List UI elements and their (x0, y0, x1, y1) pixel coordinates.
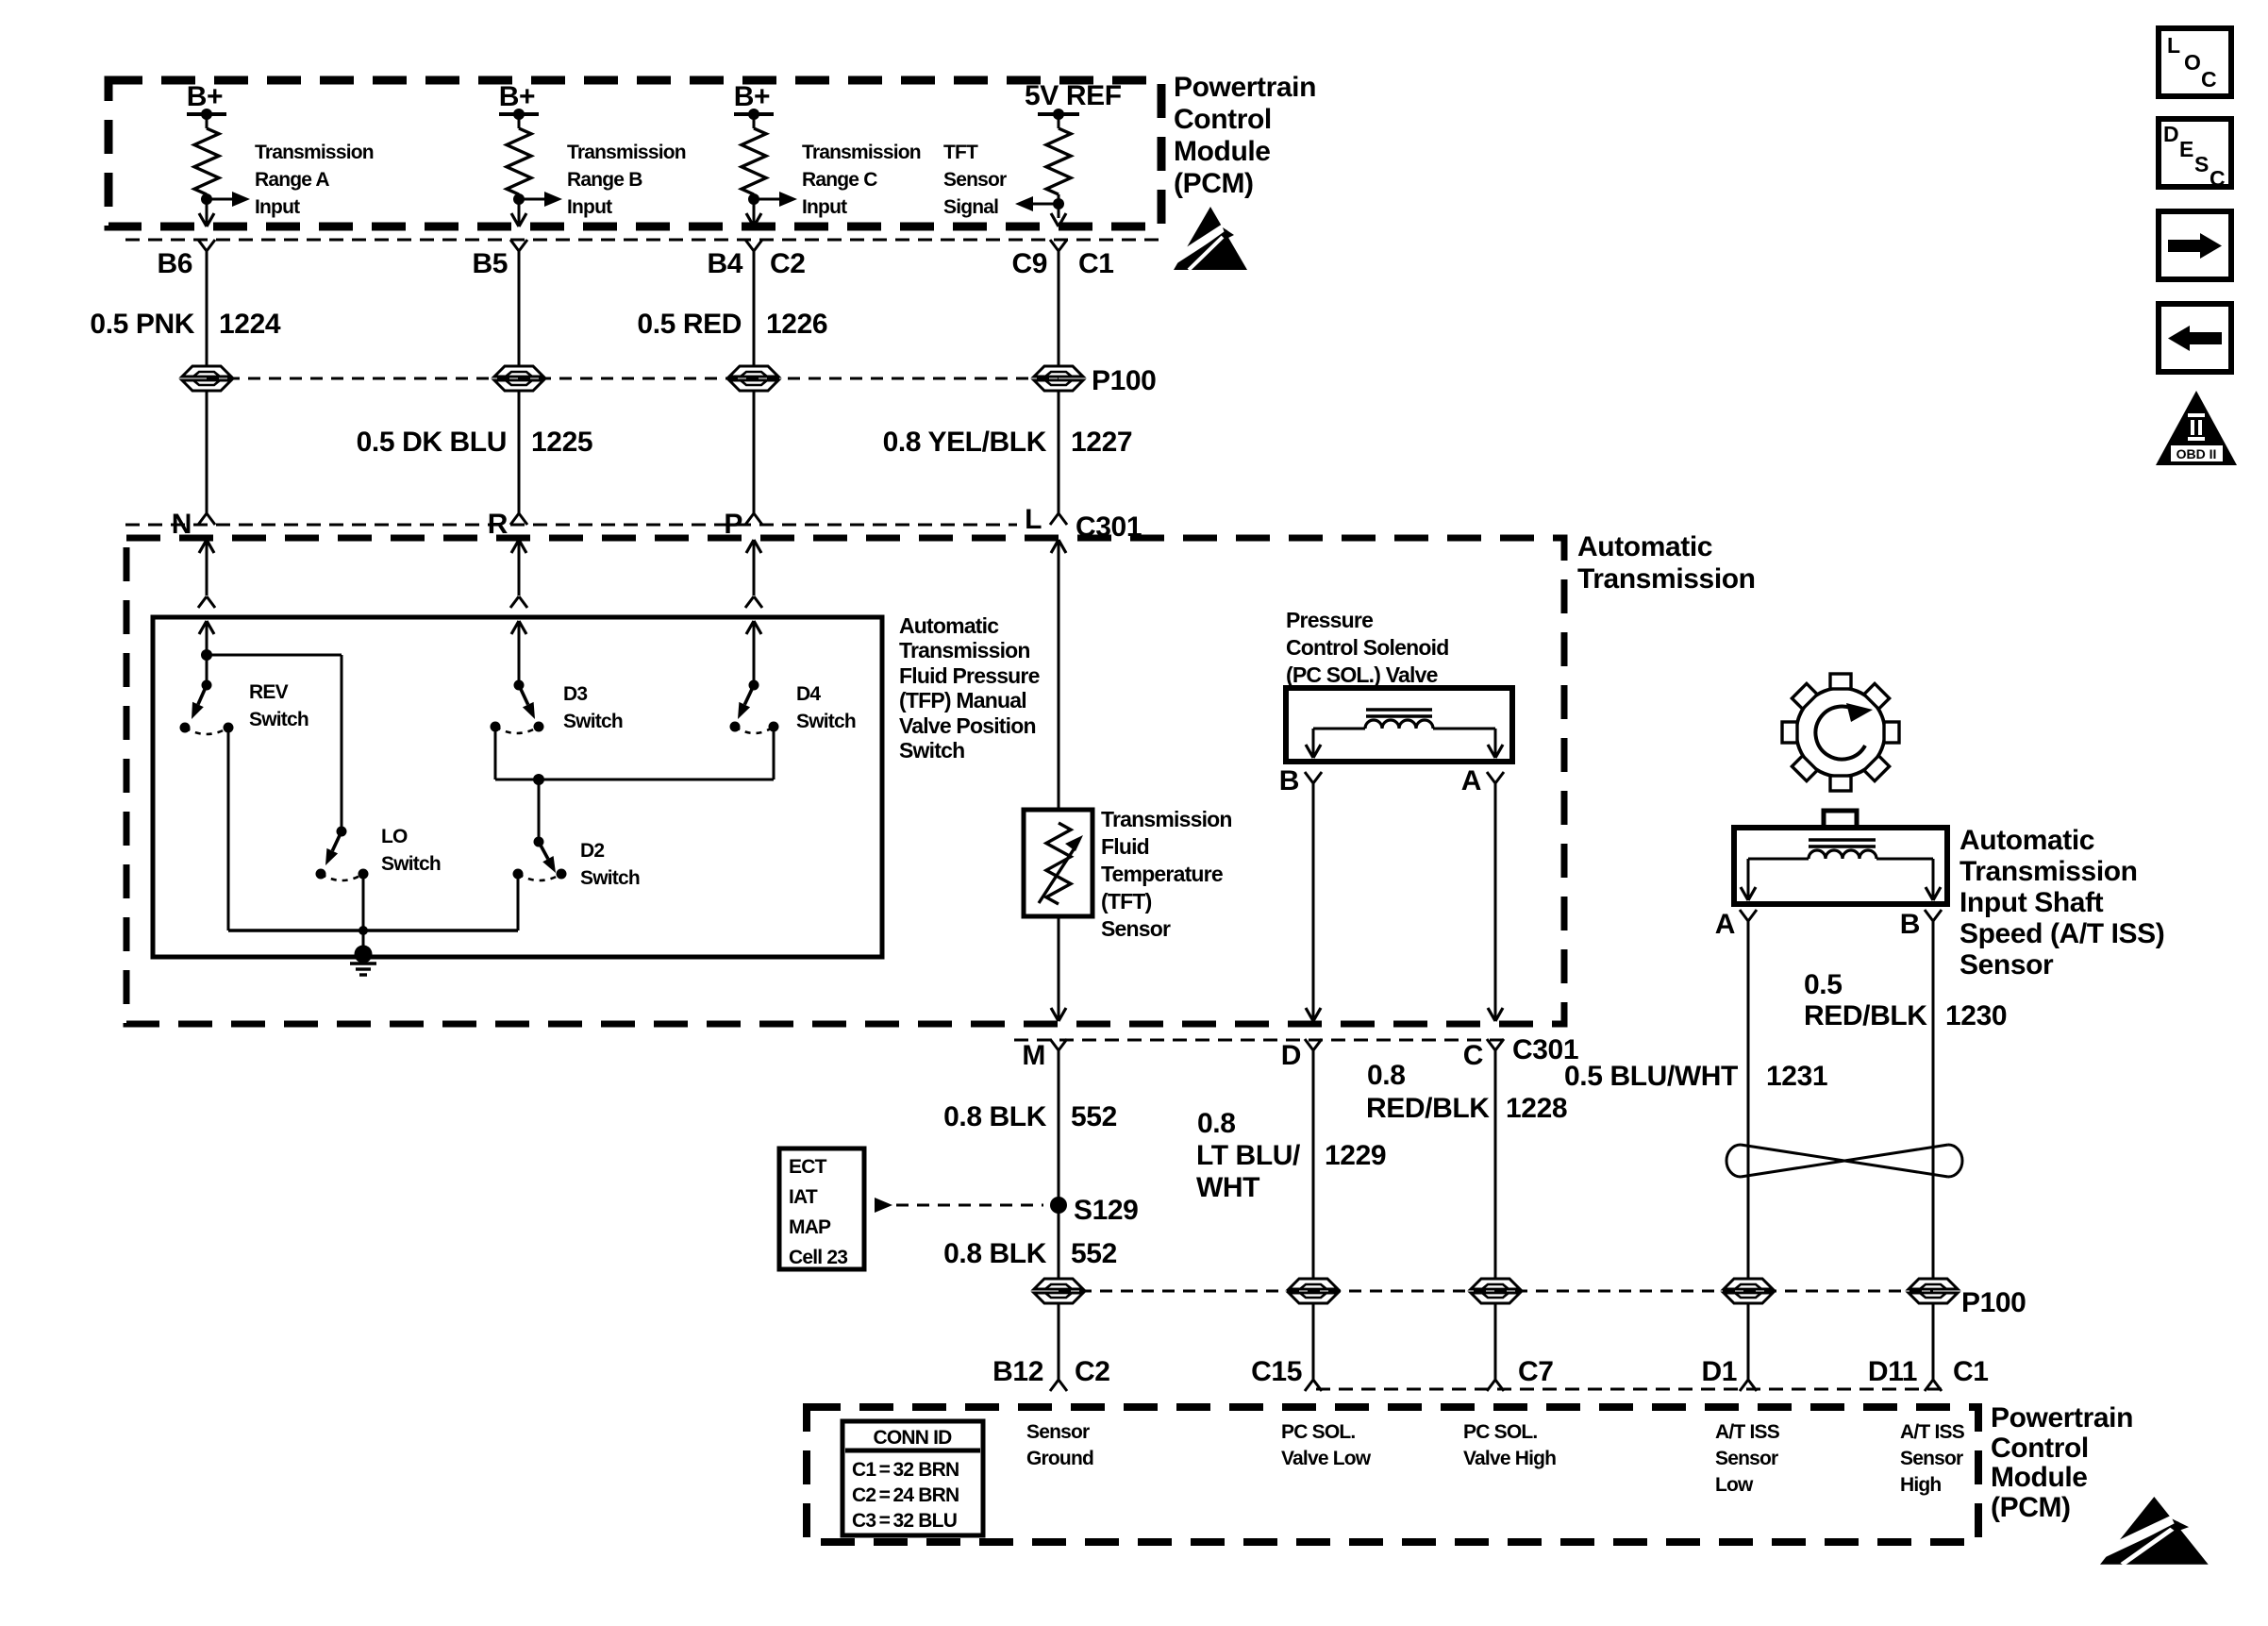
svg-text:Cell 23: Cell 23 (789, 1247, 847, 1268)
svg-text:A/T ISS: A/T ISS (1900, 1421, 1965, 1443)
svg-text:C2 = 24 BRN: C2 = 24 BRN (852, 1484, 959, 1506)
label 0.5 BLU/WHT 1231 (1564, 1061, 1827, 1092)
svg-text:B4: B4 (707, 248, 742, 279)
switch D3 (491, 680, 544, 734)
svg-text:1227: 1227 (1071, 427, 1132, 458)
connector fork B12/C2 (1050, 1380, 1067, 1391)
connector fork D (1305, 1039, 1322, 1050)
pin B12 (992, 1356, 1043, 1387)
switch D4 (730, 680, 779, 734)
svg-text:L: L (1025, 504, 1042, 535)
svg-text:0.5 PNK: 0.5 PNK (90, 309, 194, 340)
node B+ feed 3 (734, 81, 774, 120)
PCM module box (top) (108, 80, 1161, 226)
label Powertrain Control Module (PCM) top (1174, 72, 1316, 199)
svg-text:1231: 1231 (1766, 1061, 1827, 1092)
gear rotation icon (1782, 674, 1899, 791)
node 5V REF (1025, 80, 1122, 120)
connector fork wire 2 at PCM (510, 240, 527, 251)
svg-text:B+: B+ (187, 81, 223, 112)
svg-text:Input: Input (567, 196, 612, 218)
node junction dot TFT (1053, 198, 1064, 210)
svg-text:E: E (2179, 137, 2193, 161)
ISS sensor mounting tab (1824, 811, 1857, 828)
svg-text:High: High (1900, 1474, 1941, 1496)
connector fork M (1050, 1039, 1067, 1050)
icon LOC (2159, 28, 2231, 96)
svg-text:Input Shaft: Input Shaft (1959, 887, 2104, 918)
label Transmission Range A Input (255, 142, 374, 218)
svg-text:D2: D2 (580, 840, 604, 862)
svg-text:LO: LO (381, 826, 408, 847)
wire arrow into transmission (511, 540, 526, 595)
wire to D2 (538, 779, 541, 842)
svg-text:S129: S129 (1074, 1195, 1138, 1226)
wire ground bus (228, 926, 518, 935)
svg-text:PC SOL.: PC SOL. (1281, 1421, 1355, 1443)
svg-text:B6: B6 (157, 248, 192, 279)
ESD warning symbol (bottom PCM) (2100, 1497, 2209, 1565)
svg-text:PC SOL.: PC SOL. (1463, 1421, 1537, 1443)
inductor PC SOL coil (1365, 720, 1433, 729)
wire down-arrow into connector 3 (746, 213, 761, 226)
splice leader arrow (875, 1198, 1043, 1213)
label A/T ISS Sensor Low (1715, 1421, 1780, 1496)
connector fork wire 1 at PCM (198, 240, 215, 251)
svg-text:Transmission: Transmission (802, 142, 921, 163)
label Transmission Range C Input (802, 142, 921, 218)
svg-text:1226: 1226 (766, 309, 827, 340)
svg-text:Switch: Switch (249, 709, 309, 730)
wire M to S129 (1058, 1050, 1060, 1279)
inductor ISS coil (1809, 850, 1876, 859)
wire B5 P100 to C301 (518, 391, 521, 513)
grommet P100 wire4 (1034, 366, 1083, 391)
connector fork R at C301 (510, 513, 527, 525)
svg-text:Input: Input (802, 196, 847, 218)
wire arrow into TFP wire1 (199, 621, 214, 685)
node junction dot wire 1 (201, 193, 212, 205)
wire C9/C1 to P100 (1058, 251, 1060, 366)
svg-text:1228: 1228 (1506, 1093, 1567, 1124)
pin D11 (1868, 1356, 1917, 1387)
wire arrow into transmission (746, 540, 761, 595)
ECT IAT MAP Cell 23 box (779, 1148, 864, 1269)
label TFP switch description (899, 613, 1040, 763)
svg-text:(TFP) Manual: (TFP) Manual (899, 688, 1026, 712)
label 0.5 DK BLU 1225 (357, 427, 593, 458)
pin B4 (707, 248, 742, 279)
wire B4 P100 to C301 (753, 391, 756, 513)
svg-text:C2: C2 (1075, 1356, 1110, 1387)
label 0.8 YEL/BLK 1227 (883, 427, 1133, 458)
label P100 (bottom) (1961, 1287, 2026, 1318)
A/T ISS sensor box (1734, 828, 1947, 904)
svg-text:0.8: 0.8 (1197, 1108, 1236, 1139)
svg-text:C15: C15 (1251, 1356, 1302, 1387)
icon OBD II (2156, 391, 2237, 465)
wire REV contact down (227, 728, 230, 930)
node junction dot wire 2 (513, 193, 525, 205)
wire TFT to C301 bottom (1051, 916, 1066, 1021)
label 0.5 PNK 1224 (90, 309, 280, 340)
svg-text:C1 = 32 BRN: C1 = 32 BRN (852, 1459, 959, 1481)
ground symbol (350, 964, 376, 975)
svg-text:B: B (1279, 765, 1299, 796)
connector fork PC SOL B (1305, 772, 1322, 783)
wire B6 to P100 (206, 251, 208, 366)
svg-text:O: O (2184, 50, 2201, 75)
svg-text:C1: C1 (1953, 1356, 1989, 1387)
wire B6 P100 to C301 (206, 391, 208, 513)
svg-text:A: A (1461, 765, 1481, 796)
svg-text:C2: C2 (770, 248, 806, 279)
svg-text:Fluid: Fluid (1101, 834, 1149, 859)
pin C2 (bottom) (1075, 1356, 1110, 1387)
label D2 Switch (580, 840, 640, 889)
svg-text:0.8 BLK: 0.8 BLK (943, 1238, 1047, 1269)
connector fork at TFP switch (745, 596, 762, 608)
svg-text:D1: D1 (1701, 1356, 1737, 1387)
label 0.5 RED 1226 (637, 309, 827, 340)
svg-text:1230: 1230 (1945, 1000, 2007, 1031)
label LO Switch (381, 826, 441, 875)
svg-text:Control Solenoid: Control Solenoid (1286, 635, 1448, 660)
switch LO (316, 827, 369, 881)
svg-text:Transmission: Transmission (1959, 856, 2138, 887)
svg-text:Transmission: Transmission (1577, 563, 1756, 595)
svg-text:A/T ISS: A/T ISS (1715, 1421, 1780, 1443)
node B+ feed 1 (187, 81, 226, 120)
svg-text:TFT: TFT (943, 142, 978, 163)
svg-text:0.8 YEL/BLK: 0.8 YEL/BLK (883, 427, 1047, 458)
wire B4 to P100 (753, 251, 756, 366)
svg-text:Automatic: Automatic (1577, 531, 1712, 562)
svg-text:1224: 1224 (219, 309, 281, 340)
label 0.8 BLK 552 upper (943, 1101, 1117, 1132)
connector fork ISS B (1925, 910, 1942, 921)
svg-text:552: 552 (1071, 1238, 1117, 1269)
ESD warning symbol (top PCM) (1174, 207, 1247, 270)
svg-text:P100: P100 (1961, 1287, 2026, 1318)
connector fork at TFP switch (198, 596, 215, 608)
svg-text:P100: P100 (1092, 365, 1156, 396)
CONN ID table (842, 1421, 983, 1535)
label REV Switch (249, 681, 309, 730)
TFP switch assembly box (153, 617, 882, 957)
svg-text:Switch: Switch (796, 711, 856, 732)
svg-text:Range B: Range B (567, 169, 642, 191)
svg-text:D: D (2163, 122, 2179, 146)
svg-text:Pressure: Pressure (1286, 608, 1373, 632)
node junction REV branch (201, 649, 212, 661)
svg-text:Transmission: Transmission (255, 142, 374, 163)
pin C7 (1518, 1356, 1554, 1387)
svg-text:0.8: 0.8 (1367, 1060, 1406, 1091)
connector fork PC SOL A (1487, 772, 1504, 783)
arrow Range A input (207, 192, 250, 207)
svg-text:Powertrain: Powertrain (1174, 72, 1316, 103)
pin C15 (1251, 1356, 1302, 1387)
arrow TFT Sensor Signal (1015, 196, 1059, 211)
node B+ feed 2 (499, 81, 539, 120)
wire arrow into TFP wire3 (746, 621, 761, 685)
wire arrow TFT into transmission (1051, 540, 1066, 810)
label A/T ISS Sensor High (1900, 1421, 1965, 1496)
svg-text:B+: B+ (734, 81, 770, 112)
svg-text:Control: Control (1991, 1433, 2089, 1464)
resistor Transmission Range C pull-up (742, 114, 766, 213)
svg-text:0.8 BLK: 0.8 BLK (943, 1101, 1047, 1132)
svg-text:Module: Module (1991, 1462, 2088, 1493)
wire PC SOL A out (1433, 729, 1503, 758)
svg-text:Range C: Range C (802, 169, 877, 191)
grommet P100 sensor ground (1034, 1279, 1083, 1303)
twisted pair symbol (1726, 1145, 1962, 1177)
svg-text:LT BLU/: LT BLU/ (1196, 1140, 1301, 1171)
svg-text:1229: 1229 (1325, 1140, 1386, 1171)
wire into bottom PCM (1058, 1303, 1060, 1380)
grommet P100 ISS low (1724, 1279, 1773, 1303)
label TFT sensor (1101, 807, 1232, 941)
wire D down (1312, 1050, 1315, 1279)
connector line PCM top (dashed) (125, 239, 1161, 242)
label PC SOL Valve Low (1281, 1421, 1372, 1469)
connector fork L at C301 (1050, 513, 1067, 525)
label P100 (top) (1092, 365, 1156, 396)
connector fork C (1487, 1039, 1504, 1050)
wire ISS B out (1876, 859, 1941, 900)
svg-text:RED/BLK: RED/BLK (1804, 1000, 1927, 1031)
wire C1 P100 to C301 (1058, 391, 1060, 513)
icon DESC (2159, 119, 2231, 191)
wire LO contact down (362, 874, 365, 954)
svg-text:C1: C1 (1078, 248, 1114, 279)
label 0.8 LT BLU/WHT 1229 (1196, 1108, 1386, 1203)
PCM module box (bottom) (807, 1407, 1978, 1542)
PC SOL core (1366, 710, 1432, 716)
label C301 (top) (1076, 511, 1142, 543)
label D4 Switch (796, 683, 856, 732)
connector C301 dashed line (bottom) (1014, 1039, 1509, 1042)
pin R (488, 509, 509, 540)
wire down-arrow into connector 2 (511, 213, 526, 226)
wire B5 to P100 (518, 251, 521, 366)
svg-text:D3: D3 (563, 683, 587, 705)
pin P (724, 509, 742, 540)
svg-text:552: 552 (1071, 1101, 1117, 1132)
svg-text:5V REF: 5V REF (1025, 80, 1122, 111)
label S129 (1074, 1195, 1138, 1226)
pin C (1463, 1040, 1483, 1071)
ISS core (1809, 840, 1876, 847)
svg-text:A: A (1715, 909, 1735, 940)
label Automatic Transmission (1577, 531, 1756, 595)
node junction D2 feed (533, 774, 544, 785)
label PC SOL Valve High (1463, 1421, 1556, 1469)
svg-text:Automatic: Automatic (899, 613, 999, 638)
svg-text:Transmission: Transmission (567, 142, 686, 163)
svg-text:REV: REV (249, 681, 289, 703)
pin B (ISS) (1900, 909, 1920, 940)
label 0.5 RED/BLK 1230 (1804, 969, 2007, 1031)
svg-text:D11: D11 (1868, 1356, 1917, 1387)
svg-text:Ground: Ground (1026, 1448, 1093, 1469)
svg-text:RED/BLK: RED/BLK (1366, 1093, 1490, 1124)
PC SOL valve box (1286, 688, 1512, 762)
wire arrow into TFP wire2 (511, 621, 526, 685)
connector fork C7 (1487, 1380, 1504, 1391)
wire ISS B down (1932, 921, 1935, 1279)
connector P100 dashed line (bottom) (1059, 1290, 1933, 1293)
label Powertrain Control Module (PCM) bottom (1991, 1402, 2133, 1523)
connector fork P at C301 (745, 513, 762, 525)
grommet P100 PC SOL high (1471, 1279, 1520, 1303)
svg-text:0.5 DK BLU: 0.5 DK BLU (357, 427, 507, 458)
label Transmission Range B Input (567, 142, 686, 218)
label D3 Switch (563, 683, 623, 732)
label TFT Sensor Signal (943, 142, 1007, 218)
svg-text:MAP: MAP (789, 1216, 831, 1238)
pin B6 (157, 248, 192, 279)
connector fork D11/C1 (1925, 1380, 1942, 1391)
svg-text:1225: 1225 (531, 427, 592, 458)
pin A (ISS) (1715, 909, 1735, 940)
connector fork at TFP switch (510, 596, 527, 608)
svg-text:Low: Low (1715, 1474, 1754, 1496)
switch REV (180, 680, 234, 735)
svg-text:OBD II: OBD II (2176, 446, 2217, 461)
label ECT IAT MAP Cell 23 (789, 1156, 847, 1268)
svg-text:Module: Module (1174, 136, 1271, 167)
pin C1 (top) (1078, 248, 1114, 279)
pin B (PC SOL) (1279, 765, 1299, 796)
grommet P100 wire2 (494, 366, 543, 391)
wire down-arrow into connector 1 (199, 213, 214, 226)
switch D2 (513, 837, 567, 881)
svg-text:Switch: Switch (580, 867, 640, 889)
wire PC SOL B out (1306, 729, 1365, 758)
grommet P100 wire1 (182, 366, 231, 391)
label PC SOL valve (1286, 608, 1448, 687)
svg-text:Switch: Switch (381, 853, 441, 875)
wire PC SOL high down (1488, 783, 1503, 1021)
svg-text:Automatic: Automatic (1959, 825, 2094, 856)
svg-text:(TFT): (TFT) (1101, 889, 1152, 914)
pin C9 (1011, 248, 1047, 279)
svg-text:Powertrain: Powertrain (1991, 1402, 2133, 1433)
connector C301 dashed line (top) (125, 524, 1017, 527)
pin D (1281, 1040, 1301, 1071)
svg-text:Transmission: Transmission (1101, 807, 1232, 831)
pin A (PC SOL) (1461, 765, 1481, 796)
svg-text:WHT: WHT (1196, 1172, 1259, 1203)
svg-text:Sensor: Sensor (1101, 916, 1171, 941)
svg-text:C7: C7 (1518, 1356, 1554, 1387)
svg-text:Valve High: Valve High (1463, 1448, 1556, 1469)
connector fork N at C301 (198, 513, 215, 525)
connector line PCM bottom (dashed) (1316, 1388, 1943, 1391)
svg-text:(PC SOL.) Valve: (PC SOL.) Valve (1286, 662, 1438, 687)
wire D2 contact down (517, 874, 520, 930)
grommet P100 ISS high (1909, 1279, 1958, 1303)
svg-text:0.5 BLU/WHT: 0.5 BLU/WHT (1564, 1061, 1738, 1092)
svg-text:Valve Low: Valve Low (1281, 1448, 1372, 1469)
connector fork wire 4 at PCM (1050, 240, 1067, 251)
grommet P100 wire3 (729, 366, 778, 391)
svg-text:Temperature: Temperature (1101, 862, 1223, 886)
label C301 (bottom) (1512, 1034, 1578, 1065)
svg-text:IAT: IAT (789, 1186, 818, 1208)
wire into bottom PCM (1312, 1303, 1315, 1380)
svg-text:Switch: Switch (899, 738, 964, 763)
pin C1 (bottom) (1953, 1356, 1989, 1387)
svg-text:B5: B5 (472, 248, 508, 279)
wire C down (1494, 1050, 1497, 1279)
svg-text:C9: C9 (1011, 248, 1047, 279)
label Sensor Ground (1026, 1421, 1093, 1469)
pin B5 (472, 248, 508, 279)
pin C2 (top) (770, 248, 806, 279)
svg-text:B+: B+ (499, 81, 535, 112)
svg-text:Sensor: Sensor (943, 169, 1007, 191)
pin L (1025, 504, 1042, 535)
resistor TFT pull-up (1046, 114, 1071, 218)
wire branch to LO (207, 655, 342, 831)
arrow Range C input (754, 192, 797, 207)
pin D1 (1701, 1356, 1737, 1387)
svg-text:Speed (A/T ISS): Speed (A/T ISS) (1959, 918, 2164, 949)
svg-text:B: B (1900, 909, 1920, 940)
wire ISS A down (1747, 921, 1750, 1279)
pin M (1022, 1040, 1045, 1071)
svg-text:L: L (2167, 33, 2180, 58)
Automatic Transmission box (126, 538, 1564, 1024)
svg-text:CONN ID: CONN ID (873, 1427, 952, 1449)
connector fork C15 (1305, 1380, 1322, 1391)
svg-text:(PCM): (PCM) (1991, 1492, 2071, 1523)
svg-text:Transmission: Transmission (899, 638, 1030, 662)
wire arrow into transmission (199, 540, 214, 595)
splice S129 (1050, 1197, 1067, 1214)
svg-text:M: M (1022, 1040, 1045, 1071)
svg-text:Control: Control (1174, 104, 1272, 135)
connector fork D1 (1740, 1380, 1757, 1391)
svg-text:B12: B12 (992, 1356, 1043, 1387)
arrow Range B input (519, 192, 562, 207)
wire into bottom PCM (1494, 1303, 1497, 1380)
svg-text:Sensor: Sensor (1715, 1448, 1778, 1469)
svg-text:D: D (1281, 1040, 1301, 1071)
wire ISS A out (1741, 859, 1809, 900)
connector fork ISS A (1740, 910, 1757, 921)
svg-text:Valve Position: Valve Position (899, 713, 1036, 738)
wire D3-D4 link (495, 779, 774, 781)
svg-text:Switch: Switch (563, 711, 623, 732)
svg-text:Fluid Pressure: Fluid Pressure (899, 663, 1040, 688)
icon arrow left (2159, 304, 2231, 372)
connector fork wire 3 at PCM (745, 240, 762, 251)
svg-text:0.5: 0.5 (1804, 969, 1843, 1000)
TFT sensor box (1024, 810, 1092, 916)
wire into bottom PCM (1747, 1303, 1750, 1380)
svg-text:C: C (2210, 166, 2226, 191)
label A/T ISS sensor (1959, 825, 2164, 981)
wire D4 contact down (773, 727, 775, 779)
svg-text:Sensor: Sensor (1900, 1448, 1963, 1469)
svg-text:D4: D4 (796, 683, 821, 705)
grommet P100 PC SOL low (1289, 1279, 1338, 1303)
